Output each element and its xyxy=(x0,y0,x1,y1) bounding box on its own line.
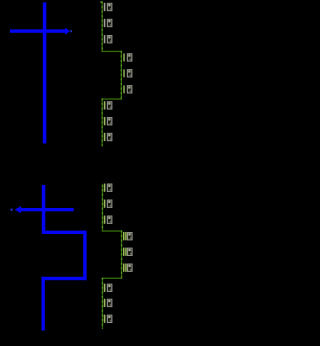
marker arrow B head xyxy=(15,206,21,213)
value label 5a xyxy=(123,232,133,240)
wire: green trace jog 3 horizontal (right) xyxy=(102,230,122,231)
wire: blue signal 1 vertical segment (top) xyxy=(43,2,47,143)
wire: green trace segment 3 vertical xyxy=(102,98,103,146)
value label 2b xyxy=(123,69,132,77)
wire: blue step right vertical xyxy=(83,231,86,281)
value label 5c xyxy=(123,264,133,272)
value label 1b xyxy=(104,19,113,27)
marker arrow A head xyxy=(65,28,70,35)
value label 2a xyxy=(123,53,132,61)
value label 1a xyxy=(104,3,113,11)
value label 3c xyxy=(104,133,113,141)
wire: blue signal 1 final vertical segment xyxy=(42,277,45,331)
value label 6c xyxy=(104,315,113,323)
wire: blue step top horizontal xyxy=(42,231,87,234)
wire: blue step bottom horizontal xyxy=(42,277,87,280)
value label 6b xyxy=(104,299,113,307)
wire: green trace jog 2 horizontal (left) xyxy=(101,98,122,99)
value label 4c xyxy=(104,216,113,224)
wire: blue signal 1 vertical segment (bottom, before step) xyxy=(42,185,46,234)
value label 2c xyxy=(123,85,132,93)
value label 4a xyxy=(104,184,113,192)
node: green trace top stub xyxy=(100,1,102,2)
value label 1c xyxy=(104,35,113,43)
wire: green trace segment 2 vertical xyxy=(121,51,122,99)
value label 6a xyxy=(104,284,113,292)
marker arrow B shaft (points left) xyxy=(18,208,74,211)
wire: green trace jog 1 horizontal (right) xyxy=(101,51,121,52)
marker arrow B tip dot xyxy=(11,209,13,211)
wire: green trace segment 6 vertical xyxy=(102,278,103,329)
marker arrow A tip dot xyxy=(70,30,72,32)
value label 3a xyxy=(104,101,113,109)
wire: green trace segment 5 vertical xyxy=(121,230,122,278)
marker arrow A shaft (points right) xyxy=(10,29,66,32)
wire: green trace jog 4 horizontal (left) xyxy=(102,278,123,279)
value label 4b xyxy=(104,200,113,208)
value label 5b xyxy=(123,248,133,256)
wire: green trace segment 4 vertical (bottom group) xyxy=(102,185,103,232)
wire: green trace segment 1 vertical xyxy=(102,1,103,51)
value label 3b xyxy=(104,117,113,125)
